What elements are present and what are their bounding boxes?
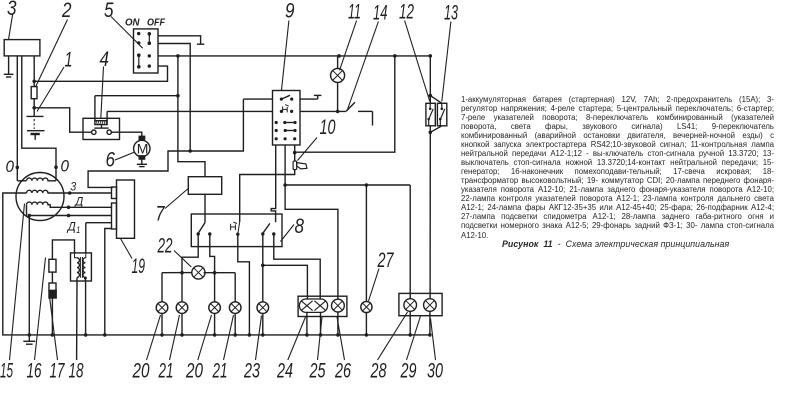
- svg-text:11: 11: [348, 0, 361, 24]
- svg-text:22: 22: [157, 234, 173, 258]
- svg-text:20: 20: [185, 359, 203, 383]
- svg-text:27: 27: [377, 248, 394, 272]
- svg-text:9: 9: [285, 0, 295, 23]
- svg-text:21: 21: [158, 359, 174, 383]
- svg-text:0: 0: [6, 157, 15, 176]
- svg-text:14: 14: [373, 1, 388, 25]
- svg-text:0: 0: [61, 157, 70, 176]
- svg-text:18: 18: [69, 359, 84, 383]
- svg-text:M: M: [137, 141, 149, 157]
- svg-text:OFF: OFF: [147, 18, 166, 29]
- svg-text:ON: ON: [125, 18, 140, 29]
- svg-text:20: 20: [132, 359, 150, 383]
- svg-text:3: 3: [70, 179, 76, 193]
- svg-text:5: 5: [104, 0, 114, 22]
- svg-text:4: 4: [100, 47, 110, 71]
- svg-text:29: 29: [400, 359, 417, 383]
- svg-text:8: 8: [295, 214, 305, 238]
- svg-text:2: 2: [61, 0, 71, 22]
- svg-text:25: 25: [309, 359, 326, 383]
- svg-text:10: 10: [320, 115, 336, 139]
- svg-text:19: 19: [132, 254, 146, 278]
- svg-text:1: 1: [76, 225, 80, 236]
- svg-text:21: 21: [212, 359, 228, 383]
- svg-text:15: 15: [0, 359, 14, 383]
- svg-text:Д: Д: [73, 194, 83, 208]
- svg-text:26: 26: [334, 359, 351, 383]
- svg-text:6: 6: [106, 148, 116, 172]
- svg-text:28: 28: [370, 359, 387, 383]
- svg-text:17: 17: [50, 359, 66, 383]
- svg-text:12: 12: [399, 0, 414, 24]
- svg-text:3: 3: [7, 0, 17, 20]
- svg-text:23: 23: [243, 359, 260, 383]
- svg-text:16: 16: [27, 359, 42, 383]
- svg-text:7: 7: [156, 202, 166, 226]
- svg-text:13: 13: [444, 1, 458, 25]
- svg-text:1: 1: [65, 48, 73, 72]
- svg-text:Д: Д: [66, 220, 76, 234]
- svg-text:24: 24: [276, 359, 293, 383]
- svg-text:30: 30: [427, 359, 443, 383]
